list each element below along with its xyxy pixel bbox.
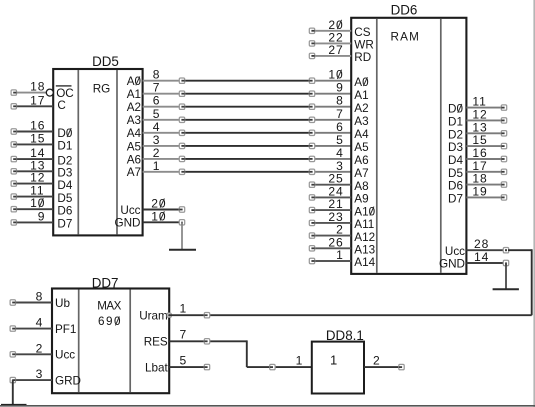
pin number 7 (DD6 A3) bbox=[336, 107, 344, 121]
svg-text:3: 3 bbox=[153, 133, 161, 147]
label D4 bbox=[57, 179, 72, 192]
svg-text:D4: D4 bbox=[448, 154, 463, 167]
pin number 3 (DD5 A5) bbox=[153, 133, 161, 147]
DD6 pin 17 lead (D5) bbox=[466, 169, 506, 174]
pin number 1 (DD7 Uram) bbox=[180, 301, 187, 315]
DD5 pin 17 lead (C) bbox=[11, 104, 53, 109]
label Ucc (DD5) bbox=[120, 204, 140, 217]
svg-text:D6: D6 bbox=[57, 205, 72, 218]
svg-text:RAM: RAM bbox=[391, 31, 421, 44]
pin number 8 (DD5 A0) bbox=[153, 68, 161, 82]
svg-text:D7: D7 bbox=[448, 192, 463, 205]
label A8 (DD6) bbox=[354, 180, 368, 193]
svg-text:Uram: Uram bbox=[139, 310, 168, 323]
DD7 pin 8 lead (Ub) bbox=[10, 300, 52, 305]
svg-text:A4: A4 bbox=[127, 127, 142, 140]
pin number 3 (DD7 GRD) bbox=[36, 367, 43, 381]
label A11 (DD6) bbox=[354, 218, 374, 231]
node Lbat bbox=[204, 364, 209, 369]
DD5 pin 4 lead (A4) bbox=[143, 132, 180, 134]
label DD5 bbox=[92, 54, 119, 69]
svg-text:A8: A8 bbox=[354, 180, 368, 193]
svg-text:18: 18 bbox=[30, 80, 45, 94]
DD8.1 pin 2 lead bbox=[364, 364, 404, 369]
pin number 17 bbox=[30, 93, 45, 107]
DD5 pin 11 lead (D5) bbox=[11, 194, 53, 199]
svg-text:690: 690 bbox=[98, 315, 122, 328]
svg-text:D2: D2 bbox=[448, 128, 463, 141]
label D7 (DD6) bbox=[448, 192, 463, 205]
label D5 (DD6) bbox=[448, 167, 463, 180]
svg-text:A7: A7 bbox=[354, 167, 368, 180]
label D3 (DD6) bbox=[448, 141, 463, 154]
svg-text:9: 9 bbox=[336, 81, 344, 95]
DD6 pin 28 lead (Ucc) bbox=[466, 248, 508, 253]
pin number 2 (DD5 A6) bbox=[153, 146, 161, 160]
DD6 pin lead A5 bbox=[314, 145, 351, 147]
DD6 pin 26 lead (A13) bbox=[309, 246, 351, 251]
svg-text:1: 1 bbox=[296, 354, 303, 368]
label A1 (DD5) bbox=[127, 88, 141, 101]
DD6 pin lead A0 bbox=[314, 80, 351, 82]
pin number 3 (DD6 A7) bbox=[336, 159, 344, 173]
pin number 6 (DD5 A2) bbox=[153, 94, 161, 108]
node A1 at DD5 side bbox=[179, 91, 184, 96]
pin number 2 (DD6 A12) bbox=[336, 223, 344, 237]
label A10 (DD6) bbox=[354, 205, 375, 218]
svg-text:D5: D5 bbox=[57, 192, 72, 205]
pin number 16 (DD6 D4) bbox=[472, 146, 487, 160]
wire RES corner down bbox=[246, 340, 248, 367]
svg-text:D4: D4 bbox=[57, 179, 72, 192]
wire net A2 bbox=[180, 106, 314, 108]
pin number 22 (DD6 WR) bbox=[328, 30, 343, 44]
DD6 pin lead A6 bbox=[314, 158, 351, 160]
node RES bbox=[204, 339, 209, 344]
svg-text:D1: D1 bbox=[448, 115, 463, 128]
label A9 (DD6) bbox=[354, 193, 368, 206]
label A0 (DD5) bbox=[127, 75, 142, 88]
svg-text:8: 8 bbox=[153, 68, 161, 82]
pin number 14 bbox=[30, 146, 45, 160]
DD5 pin 12 lead (D4) bbox=[11, 181, 53, 186]
node A7 at DD6 side bbox=[309, 169, 314, 174]
gate DD8.1 body bbox=[312, 342, 364, 394]
DD6 pin 21 lead (A10) bbox=[309, 207, 351, 212]
label Ub (DD7) bbox=[55, 297, 70, 310]
pin number 16 bbox=[30, 119, 45, 133]
label D6 (DD6) bbox=[448, 180, 463, 193]
svg-text:5: 5 bbox=[336, 133, 344, 147]
node A5 at DD5 side bbox=[179, 143, 184, 148]
DD5 pin 3 lead (A5) bbox=[143, 145, 180, 147]
node A1 at DD6 side bbox=[309, 91, 314, 96]
label DD6 bbox=[391, 2, 418, 17]
wire net RES horizontal bbox=[169, 340, 247, 342]
wire net A0 bbox=[180, 80, 314, 82]
pin number 20 (DD6 CS) bbox=[328, 18, 343, 32]
wire DD6 GND to ground bbox=[505, 263, 507, 289]
pin number 27 (DD6 RD) bbox=[328, 43, 343, 57]
DD7 pin 4 lead (PF1) bbox=[10, 326, 52, 331]
svg-text:A6: A6 bbox=[354, 154, 368, 167]
DD6 pin 12 lead (D1) bbox=[466, 118, 506, 123]
svg-text:A1: A1 bbox=[354, 89, 368, 102]
DD5 pin 10 lead (D6) bbox=[11, 207, 53, 212]
DD5 pin 2 lead (A6) bbox=[143, 158, 180, 160]
svg-text:6: 6 bbox=[336, 120, 344, 134]
svg-text:CS: CS bbox=[354, 26, 370, 39]
pin number 4 (DD5 A4) bbox=[153, 120, 161, 134]
DD6 pin 24 lead (A9) bbox=[309, 195, 351, 200]
wire DD7 GRD to ground bbox=[12, 380, 14, 405]
svg-text:A10: A10 bbox=[354, 205, 375, 218]
DD6 pin lead A2 bbox=[314, 106, 351, 108]
pin number 12 bbox=[30, 171, 45, 185]
svg-text:A5: A5 bbox=[127, 140, 142, 153]
DD6 pin 23 lead (A11) bbox=[309, 220, 351, 225]
svg-text:Ucc: Ucc bbox=[445, 245, 465, 258]
label D6 bbox=[57, 205, 72, 218]
wire RES to DD8.1 bbox=[247, 366, 312, 368]
pin number 2 (DD8.1 output) bbox=[373, 354, 380, 368]
svg-text:D5: D5 bbox=[448, 167, 463, 180]
DD6 pin lead A3 bbox=[314, 119, 351, 121]
label OC with overline bbox=[56, 86, 74, 100]
label A0 (DD6) bbox=[354, 76, 369, 89]
DD6 pin lead A4 bbox=[314, 132, 351, 134]
label GRD (DD7) bbox=[55, 375, 81, 388]
svg-text:GRD: GRD bbox=[55, 375, 81, 388]
DD7 pin 5 lead (Lbat) bbox=[169, 366, 204, 368]
svg-text:8: 8 bbox=[36, 290, 43, 304]
pin number 10 (DD6 A0) bbox=[328, 68, 343, 82]
svg-text:3: 3 bbox=[336, 159, 344, 173]
node A5 at DD6 side bbox=[309, 143, 314, 148]
label C bbox=[57, 99, 65, 112]
DD5 pin 15 lead (D1) bbox=[11, 142, 53, 147]
DD6 pin 27 lead (RD) bbox=[309, 53, 351, 58]
svg-text:4: 4 bbox=[153, 120, 161, 134]
DD5 pin 6 lead (A2) bbox=[143, 106, 180, 108]
label DD8.1 bbox=[326, 328, 364, 343]
supervisor DD7 body bbox=[52, 289, 169, 394]
DD6 pin lead A1 bbox=[314, 93, 351, 95]
label D0 (DD6) bbox=[448, 103, 463, 116]
pin number 13 (DD6 D2) bbox=[472, 120, 487, 134]
svg-text:RD: RD bbox=[354, 51, 371, 64]
svg-text:DD5: DD5 bbox=[92, 54, 119, 69]
svg-text:17: 17 bbox=[30, 93, 45, 107]
svg-text:PF1: PF1 bbox=[55, 323, 76, 336]
node A3 at DD5 side bbox=[179, 117, 184, 122]
svg-text:A5: A5 bbox=[354, 141, 369, 154]
DD7 pin 3 lead (GRD) bbox=[10, 377, 52, 382]
ground symbol under DD6 bbox=[493, 288, 519, 290]
label D1 (DD6) bbox=[448, 115, 463, 128]
wire net A5 bbox=[180, 145, 314, 147]
svg-text:GND: GND bbox=[439, 258, 465, 271]
label Uram bbox=[139, 310, 168, 323]
pin number 4 (DD7 PF1) bbox=[36, 316, 43, 330]
svg-text:A6: A6 bbox=[127, 153, 141, 166]
node A0 at DD5 side bbox=[179, 78, 184, 83]
label A5 (DD6) bbox=[354, 141, 369, 154]
frame border bottom bbox=[0, 405, 535, 407]
label D7 bbox=[57, 218, 72, 231]
svg-text:15: 15 bbox=[472, 133, 487, 147]
svg-text:2: 2 bbox=[153, 146, 161, 160]
pin number 18 (DD6 D6) bbox=[472, 172, 487, 186]
pin number 14 (DD6 GND) bbox=[474, 250, 489, 264]
svg-text:15: 15 bbox=[30, 131, 45, 145]
pin number 7 (DD7 RES) bbox=[180, 328, 187, 342]
svg-text:A9: A9 bbox=[354, 193, 368, 206]
pin number 7 (DD5 A1) bbox=[153, 81, 161, 95]
label A3 (DD5) bbox=[127, 114, 141, 127]
svg-text:A13: A13 bbox=[354, 244, 375, 257]
pin number 6 (DD6 A4) bbox=[336, 120, 344, 134]
pin number 19 (DD6 D7) bbox=[472, 184, 487, 198]
svg-text:1: 1 bbox=[336, 248, 344, 262]
svg-text:3: 3 bbox=[36, 367, 43, 381]
svg-text:7: 7 bbox=[153, 81, 161, 95]
DD5 pin 8 lead (A0) bbox=[143, 80, 180, 82]
svg-text:A3: A3 bbox=[127, 114, 141, 127]
DD5 pin 18 lead (OC input) bbox=[11, 90, 46, 95]
node A4 at DD6 side bbox=[309, 130, 314, 135]
pin number 2 (DD7 Ucc) bbox=[36, 341, 43, 355]
DD6 pin 13 lead (D2) bbox=[466, 131, 506, 136]
pin number 26 (DD6 A13) bbox=[328, 235, 343, 249]
pin number 18 bbox=[30, 80, 45, 94]
svg-text:A2: A2 bbox=[354, 102, 368, 115]
node Uram at DD7 edge bbox=[167, 313, 171, 317]
pin number 25 (DD6 A8) bbox=[328, 172, 343, 186]
DD6 pin 16 lead (D4) bbox=[466, 156, 506, 161]
wire DD5 GND to ground bbox=[181, 222, 183, 250]
pin number 1 (DD5 A7) bbox=[153, 159, 161, 173]
label RD (DD6) bbox=[354, 51, 371, 64]
pin number 9 bbox=[38, 209, 46, 223]
label D2 bbox=[57, 154, 72, 167]
pin number 4 (DD6 A6) bbox=[336, 146, 344, 160]
DD5 pin 14 lead (D2) bbox=[11, 156, 53, 161]
label Ucc (DD6) bbox=[445, 245, 465, 258]
DD6 pin 19 lead (D7) bbox=[466, 195, 506, 200]
label RES bbox=[144, 336, 168, 349]
svg-text:7: 7 bbox=[180, 328, 187, 342]
wire net A1 bbox=[180, 93, 314, 95]
svg-text:14: 14 bbox=[474, 250, 489, 264]
svg-text:A3: A3 bbox=[354, 115, 368, 128]
label A2 (DD6) bbox=[354, 102, 368, 115]
DD6 pin 2 lead (A12) bbox=[309, 233, 351, 238]
RAM DD6 body bbox=[351, 18, 466, 274]
svg-text:6: 6 bbox=[153, 94, 161, 108]
DD6 pin 14 lead (GND) bbox=[466, 260, 508, 265]
node A3 at DD6 side bbox=[309, 117, 314, 122]
DD5 pin 16 lead (D0) bbox=[11, 129, 53, 134]
node Uram bbox=[204, 313, 209, 318]
pin number 15 (DD6 D3) bbox=[472, 133, 487, 147]
svg-text:D6: D6 bbox=[448, 180, 463, 193]
wire net A3 bbox=[180, 119, 314, 121]
DD6 pin 11 lead (D0) bbox=[466, 105, 506, 110]
pin number 20 bbox=[151, 197, 166, 211]
svg-text:D1: D1 bbox=[57, 140, 72, 153]
svg-text:GND: GND bbox=[115, 217, 141, 230]
pin number 9 (DD6 A1) bbox=[336, 81, 344, 95]
svg-text:DD8.1: DD8.1 bbox=[326, 328, 364, 343]
label CS (DD6) bbox=[354, 26, 370, 39]
node RES to DD8.1 bbox=[270, 364, 275, 369]
pin number 21 (DD6 A10) bbox=[328, 197, 343, 211]
label A4 (DD5) bbox=[127, 127, 142, 140]
pin number 23 (DD6 A11) bbox=[328, 210, 343, 224]
node A4 at DD5 side bbox=[179, 130, 184, 135]
label D2 (DD6) bbox=[448, 128, 463, 141]
pin number 8 (DD6 A2) bbox=[336, 94, 344, 108]
pin number 15 bbox=[30, 131, 45, 145]
svg-text:WR: WR bbox=[354, 39, 373, 52]
DD5 pin 5 lead (A3) bbox=[143, 119, 180, 121]
svg-text:D3: D3 bbox=[57, 167, 72, 180]
label DD7 bbox=[92, 275, 119, 290]
register DD5 body bbox=[53, 69, 142, 235]
node A2 at DD5 side bbox=[179, 104, 184, 109]
pin number 17 (DD6 D5) bbox=[472, 159, 487, 173]
label A3 (DD6) bbox=[354, 115, 368, 128]
label Lbat bbox=[145, 362, 169, 375]
label MAX bbox=[97, 299, 121, 312]
label D1 bbox=[57, 140, 72, 153]
wire net A6 bbox=[180, 158, 314, 160]
pin number 12 (DD6 D1) bbox=[472, 107, 487, 121]
svg-text:Ucc: Ucc bbox=[120, 204, 140, 217]
DD5 pin 20 lead (Ucc) bbox=[143, 207, 185, 212]
DD6 pin 18 lead (D6) bbox=[466, 182, 506, 187]
label A1 (DD6) bbox=[354, 89, 368, 102]
label A7 (DD6) bbox=[354, 167, 368, 180]
ground symbol under DD5 bbox=[169, 249, 196, 251]
svg-text:A12: A12 bbox=[354, 231, 375, 244]
svg-text:A4: A4 bbox=[354, 128, 369, 141]
node A6 at DD5 side bbox=[179, 156, 184, 161]
pin number 24 (DD6 A9) bbox=[328, 184, 343, 198]
pin number 28 bbox=[474, 237, 489, 251]
label 690 bbox=[98, 315, 122, 328]
svg-text:8: 8 bbox=[336, 94, 344, 108]
pin number 11 bbox=[30, 184, 44, 198]
svg-text:12: 12 bbox=[472, 107, 487, 121]
DD5 pin 10 lead (GND) bbox=[143, 220, 185, 225]
svg-text:2: 2 bbox=[36, 341, 43, 355]
label 1 inside DD8.1 bbox=[330, 353, 337, 368]
label A2 (DD5) bbox=[127, 101, 141, 114]
label D3 bbox=[57, 167, 72, 180]
label A6 (DD5) bbox=[127, 153, 141, 166]
label D5 bbox=[57, 192, 72, 205]
node A6 at DD6 side bbox=[309, 156, 314, 161]
svg-text:DD6: DD6 bbox=[391, 2, 418, 17]
pin number 5 (DD6 A5) bbox=[336, 133, 344, 147]
svg-text:5: 5 bbox=[153, 107, 161, 121]
svg-text:Ub: Ub bbox=[55, 297, 70, 310]
svg-text:4: 4 bbox=[336, 146, 344, 160]
svg-text:DD7: DD7 bbox=[92, 275, 119, 290]
pin number 10 (DD5 GND) bbox=[151, 209, 166, 223]
pin number 13 bbox=[30, 158, 45, 172]
svg-text:D7: D7 bbox=[57, 218, 72, 231]
label A14 (DD6) bbox=[354, 256, 375, 269]
svg-text:RES: RES bbox=[144, 336, 168, 349]
svg-text:1: 1 bbox=[180, 301, 187, 315]
wire Ucc28 to Uram net bbox=[508, 249, 532, 315]
DD7 pin 2 lead (Ucc) bbox=[10, 352, 52, 357]
label A12 (DD6) bbox=[354, 231, 375, 244]
wire net A4 bbox=[180, 132, 314, 134]
DD6 pin 22 lead (WR) bbox=[309, 41, 351, 46]
label A4 (DD6) bbox=[354, 128, 369, 141]
svg-text:19: 19 bbox=[472, 184, 487, 198]
wire net Uram bbox=[169, 314, 532, 316]
pin number 8 (DD7 Ub) bbox=[36, 290, 43, 304]
svg-text:Lbat: Lbat bbox=[145, 362, 169, 375]
svg-text:A14: A14 bbox=[354, 256, 375, 269]
svg-text:4: 4 bbox=[36, 316, 43, 330]
pin number 1 (DD6 A14) bbox=[336, 248, 344, 262]
frame border right bbox=[533, 0, 535, 407]
label WR (DD6) bbox=[354, 39, 373, 52]
label RG bbox=[93, 82, 111, 95]
DD5 pin 1 lead (A7) bbox=[143, 171, 180, 173]
svg-text:D3: D3 bbox=[448, 141, 463, 154]
svg-text:1: 1 bbox=[153, 159, 161, 173]
svg-text:Ucc: Ucc bbox=[55, 349, 75, 362]
svg-text:A11: A11 bbox=[354, 218, 374, 231]
svg-text:12: 12 bbox=[30, 171, 45, 185]
svg-text:A1: A1 bbox=[127, 88, 141, 101]
node A0 at DD6 side bbox=[309, 78, 314, 83]
DD6 pin 1 lead (A14) bbox=[309, 258, 351, 263]
svg-text:RG: RG bbox=[93, 82, 111, 95]
wire net A7 bbox=[180, 171, 314, 173]
svg-text:A2: A2 bbox=[127, 101, 141, 114]
label D4 (DD6) bbox=[448, 154, 463, 167]
pin number 10 bbox=[30, 196, 45, 210]
label RAM bbox=[391, 31, 421, 44]
label PF1 (DD7) bbox=[55, 323, 76, 336]
svg-text:C: C bbox=[57, 99, 65, 112]
label GND (DD5) bbox=[115, 217, 141, 230]
svg-text:2: 2 bbox=[373, 354, 380, 368]
label A5 (DD5) bbox=[127, 140, 142, 153]
label D0 bbox=[57, 127, 72, 140]
label GND (DD6) bbox=[439, 258, 465, 271]
svg-text:MAX: MAX bbox=[97, 299, 121, 312]
label A7 (DD5) bbox=[127, 166, 141, 179]
node A2 at DD6 side bbox=[309, 104, 314, 109]
DD6 pin 15 lead (D3) bbox=[466, 143, 506, 148]
node A7 at DD5 side bbox=[179, 169, 184, 174]
pin number 1 (DD8.1 input) bbox=[296, 354, 303, 368]
DD6 pin 20 lead (CS) bbox=[309, 28, 351, 33]
label A13 (DD6) bbox=[354, 244, 375, 257]
svg-text:9: 9 bbox=[38, 209, 46, 223]
label Ucc (DD7) bbox=[55, 349, 75, 362]
DD6 pin 25 lead (A8) bbox=[309, 182, 351, 187]
